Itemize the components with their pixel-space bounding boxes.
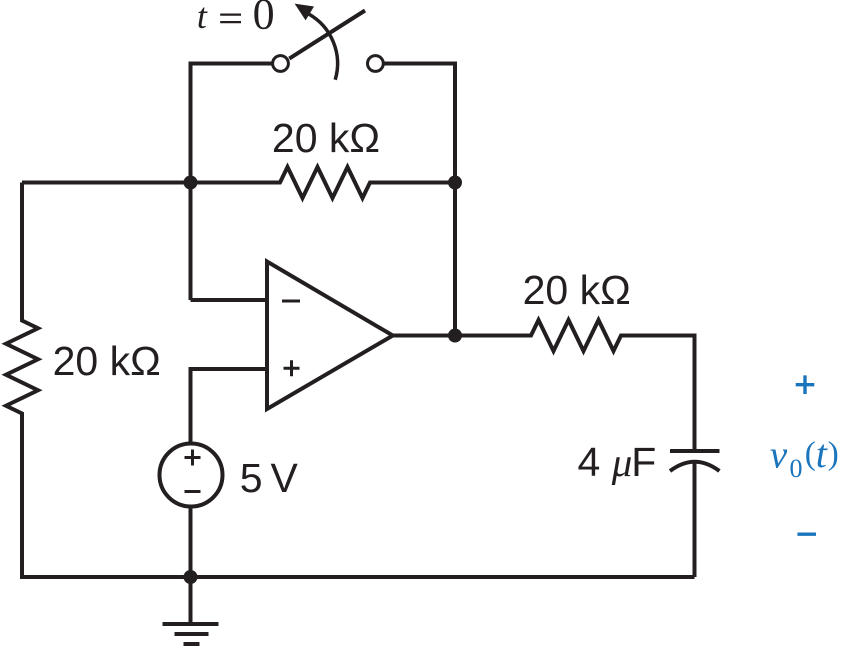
svg-text:20 kΩ: 20 kΩ xyxy=(272,115,380,161)
svg-text:t: t xyxy=(197,0,208,36)
svg-text:(: ( xyxy=(805,436,816,472)
svg-text:v: v xyxy=(770,434,788,477)
svg-text:0: 0 xyxy=(790,454,803,483)
svg-text:0: 0 xyxy=(253,0,275,39)
svg-text:5 V: 5 V xyxy=(240,455,299,501)
svg-text:t: t xyxy=(816,431,828,476)
svg-text:20 kΩ: 20 kΩ xyxy=(523,267,631,313)
svg-text:4 μF: 4 μF xyxy=(578,439,657,485)
svg-text:20 kΩ: 20 kΩ xyxy=(53,338,161,384)
svg-text:): ) xyxy=(828,436,839,472)
